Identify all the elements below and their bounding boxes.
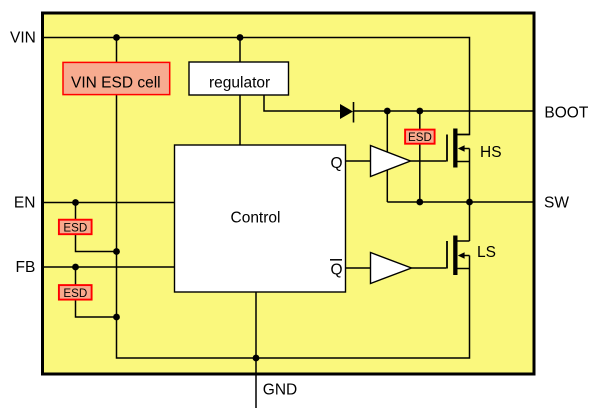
svg-text:SW: SW <box>544 195 569 212</box>
svg-text:Control: Control <box>231 210 281 227</box>
svg-text:ESD: ESD <box>408 131 432 144</box>
svg-text:HS: HS <box>480 144 502 161</box>
svg-text:regulator: regulator <box>209 75 270 92</box>
svg-text:VIN ESD cell: VIN ESD cell <box>71 75 161 92</box>
svg-text:VIN: VIN <box>10 30 36 47</box>
svg-text:Q: Q <box>331 155 343 172</box>
svg-text:EN: EN <box>14 195 36 212</box>
svg-text:LS: LS <box>477 244 496 261</box>
svg-text:GND: GND <box>263 381 297 398</box>
svg-text:ESD: ESD <box>63 222 87 235</box>
svg-text:FB: FB <box>16 259 36 276</box>
svg-text:Q: Q <box>331 262 343 279</box>
svg-text:ESD: ESD <box>63 287 87 300</box>
svg-text:BOOT: BOOT <box>544 105 588 122</box>
